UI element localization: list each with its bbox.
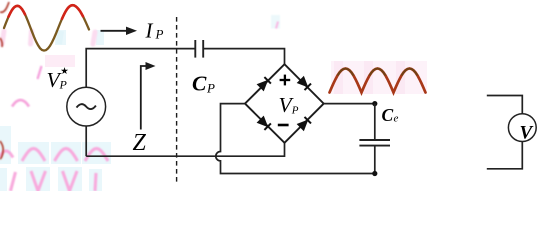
svg-text:P: P	[59, 78, 68, 92]
input sine red peak 1	[9, 6, 26, 17]
output waveform brown top 2	[370, 69, 386, 76]
watermark pink V shapes bottom row	[11, 171, 97, 191]
voltmeter wires	[487, 96, 523, 114]
junction node top of Ce	[372, 101, 377, 106]
output rectified waveform (red body)	[330, 69, 426, 93]
svg-text:P: P	[206, 81, 215, 96]
diode D4 lower-right (points to right vertex)	[297, 117, 311, 131]
watermark cyan patches	[0, 30, 111, 191]
wire: Ce bottom to wire2	[374, 146, 376, 174]
label plus	[280, 75, 291, 86]
svg-text:e: e	[394, 113, 399, 125]
wire: source bottom to wire1	[85, 126, 87, 156]
Z arrow	[141, 62, 156, 130]
svg-text:P: P	[155, 27, 164, 42]
dashed boundary line	[176, 17, 178, 185]
wire: node down to Ce	[374, 104, 376, 140]
svg-text:P: P	[291, 105, 299, 117]
watermark single pink hump mid-left	[12, 100, 29, 107]
wire: CP to bridge top	[203, 49, 284, 65]
junction node bottom of Ce	[372, 171, 377, 176]
output waveform brown top 3	[402, 69, 418, 76]
svg-text:★: ★	[60, 66, 69, 77]
watermark pink streaks top middle	[271, 15, 280, 29]
arrow IP	[101, 27, 138, 35]
svg-text:I: I	[145, 19, 154, 43]
wire1: bottom AC return to bridge bottom	[86, 143, 284, 156]
diode D3 lower-left (points to bottom vertex)	[257, 116, 271, 130]
watermark pink hump row 3	[85, 149, 108, 162]
watermark pink streaks under left sine	[2, 31, 95, 44]
watermark dark red edge marks	[0, 2, 9, 159]
svg-text:C: C	[382, 105, 394, 125]
wire: bridge left vertex to hop and wire2	[216, 104, 375, 174]
output waveform brown top 1	[338, 69, 354, 76]
watermark pink partial hump at left edge	[0, 151, 13, 158]
svg-text:C: C	[192, 72, 207, 96]
label minus	[278, 124, 289, 127]
voltmeter circle	[508, 114, 536, 142]
watermark cyan streak under left sine	[59, 31, 61, 44]
input sine red peak 2	[62, 5, 83, 19]
watermark magenta slash left of VP*	[38, 66, 42, 79]
diode D2 upper-right (points to right vertex)	[297, 76, 311, 90]
AC source VP* circle	[67, 87, 106, 126]
input sine waveform (brown body)	[4, 5, 89, 50]
wire: bridge right vertex to Ce node	[324, 103, 375, 105]
wire: top left from source to CP	[86, 49, 195, 88]
svg-text:Z: Z	[133, 130, 147, 156]
watermark pink band behind output humps	[45, 55, 427, 94]
AC source tilde	[77, 104, 96, 109]
watermark pink hump row 1	[22, 149, 45, 162]
diode bridge edges	[245, 64, 324, 143]
diode D1 upper-left (points to top vertex)	[257, 77, 271, 91]
svg-text:V: V	[520, 123, 534, 144]
capacitor Ce	[359, 140, 390, 146]
capacitor CP	[195, 40, 203, 58]
watermark pink hump row 2	[55, 149, 78, 162]
